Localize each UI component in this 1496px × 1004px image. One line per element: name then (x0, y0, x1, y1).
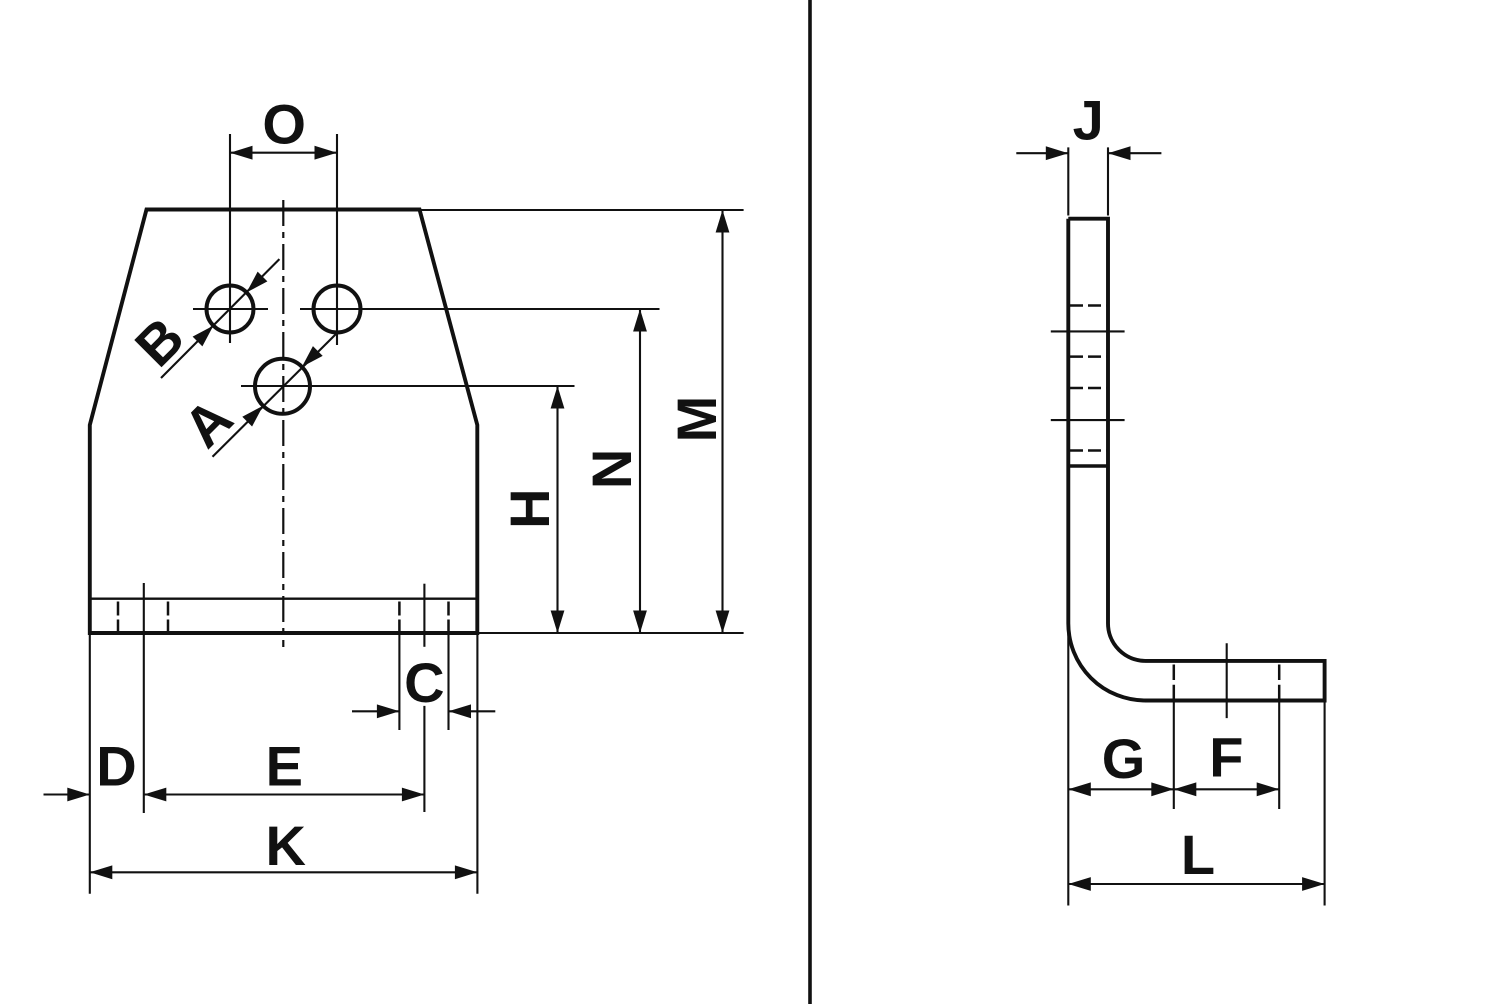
main vertical centerline (282, 200, 284, 647)
hidden hole edge left flange hole (left edge) (117, 602, 120, 632)
svg-text:J: J (1073, 88, 1104, 151)
extension line bottom edge for H N M (479, 632, 744, 634)
svg-text:N: N (580, 449, 643, 489)
dimension F (1174, 725, 1279, 796)
dimension H (498, 386, 564, 633)
svg-text:K: K (265, 814, 305, 877)
dimension E (144, 734, 425, 801)
E right extension line (hole centerline) (423, 584, 425, 647)
bracket front view outline (90, 210, 478, 634)
dimension M (665, 210, 730, 633)
hole B2 (314, 286, 361, 333)
K left extension line (89, 635, 91, 894)
L right extension line (1324, 702, 1326, 906)
dimension D (44, 734, 137, 801)
hidden hole edge upright (2) (1070, 355, 1106, 358)
hidden hole edge upright (3) (1070, 387, 1106, 390)
svg-text:G: G (1102, 727, 1146, 790)
dimension O (230, 93, 337, 160)
C left extension line (398, 633, 400, 730)
svg-text:C: C (404, 651, 444, 714)
leader A (171, 332, 338, 459)
K right extension line (476, 635, 478, 894)
dimension G (1068, 727, 1174, 796)
dimension K (90, 814, 478, 879)
hidden hole edge upright (4) (1070, 449, 1106, 452)
D extension line (143, 583, 145, 813)
dimension L (1068, 823, 1324, 891)
svg-text:M: M (665, 396, 728, 443)
G right / F left extension line (1173, 701, 1175, 810)
leg hole centerline (1226, 643, 1228, 718)
bracket side view outline (1068, 219, 1324, 701)
hole centerline upright (2) (1051, 419, 1125, 421)
hidden hole edge right flange hole (right edge) (447, 602, 450, 632)
B1 horizontal centerline (193, 308, 268, 310)
dimension N (580, 309, 647, 633)
B2 vertical centerline / O right extension (336, 134, 338, 345)
svg-text:E: E (266, 734, 303, 797)
hidden hole edge right flange hole (left edge) (398, 602, 401, 632)
dimension C (352, 651, 495, 718)
J left extension line (1067, 147, 1069, 215)
G left extension line (1067, 626, 1069, 906)
hidden hole edge left flange hole (right edge) (167, 602, 170, 632)
bend tangent line (91, 598, 476, 600)
svg-text:H: H (498, 488, 561, 528)
J right extension line (1107, 147, 1109, 215)
A horizontal centerline / H extension (241, 385, 575, 387)
B1 vertical centerline / O left extension (229, 134, 231, 343)
F right extension line (1278, 701, 1280, 810)
hidden hole edge upright (1) (1070, 304, 1106, 307)
svg-text:O: O (262, 93, 306, 156)
extension line top edge for M (421, 209, 744, 211)
hole centerline upright (1) (1051, 330, 1125, 332)
hole A (255, 359, 310, 414)
svg-text:L: L (1181, 823, 1215, 886)
divider line between views (808, 0, 812, 1004)
hidden hole edge leg (right) (1278, 665, 1281, 700)
svg-text:D: D (96, 734, 136, 797)
dimension J (1016, 88, 1161, 160)
hidden hole edge leg (left) (1173, 665, 1176, 700)
interior edge line upright (1068, 464, 1108, 468)
hole B1 (207, 286, 254, 333)
leader B (123, 259, 280, 378)
C right extension line (447, 633, 449, 730)
svg-text:F: F (1209, 725, 1243, 788)
B2 horizontal centerline / N extension (300, 308, 660, 310)
